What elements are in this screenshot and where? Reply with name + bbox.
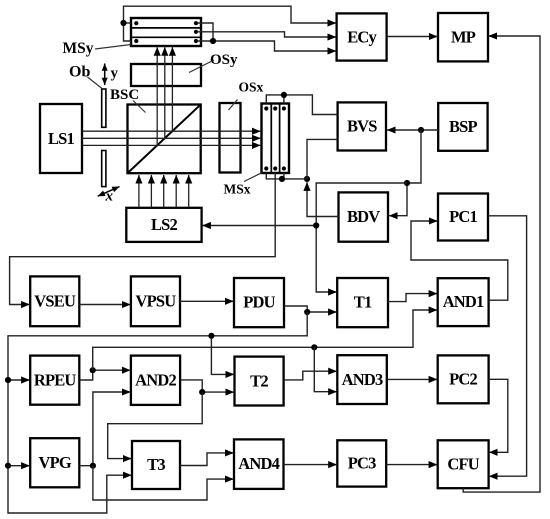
- svg-text:OSy: OSy: [210, 52, 238, 68]
- wire VPG to AND2 lower input: [79, 392, 130, 466]
- junction T2 upper feed: [208, 333, 214, 339]
- svg-text:PC1: PC1: [449, 207, 477, 226]
- junction LS2 branch: [313, 222, 319, 228]
- beam splitter cube BSC: [128, 105, 201, 174]
- block VPSU: [131, 276, 180, 326]
- svg-text:MSx: MSx: [224, 182, 251, 197]
- junction on BSP-BVS wire: [418, 127, 424, 133]
- block ECy: [337, 13, 387, 60]
- wire BSP branch down to BDV right input: [389, 130, 421, 216]
- wire MSy strip1 right loop: [197, 23, 213, 41]
- x axis double arrow: [98, 187, 120, 205]
- svg-text:VSEU: VSEU: [34, 292, 76, 311]
- svg-text:OSx: OSx: [239, 80, 264, 95]
- mirror system MSy: [131, 18, 201, 46]
- svg-text:AND4: AND4: [238, 454, 279, 473]
- horizontal laser beam LS1 to MSx (3 rays): [82, 131, 261, 145]
- wire RPEU branch to AND1 lower input: [93, 310, 438, 370]
- pump beams LS2 to BSC (5 arrows): [139, 175, 189, 208]
- wire CFU output to MP right input: [463, 36, 540, 492]
- block PC3: [337, 440, 386, 486]
- svg-text:RPEU: RPEU: [34, 371, 77, 390]
- label Ob with pointer: [69, 64, 102, 89]
- junction RPEU output branch: [90, 367, 96, 373]
- wire MSy left node over top to ECy input 1: [124, 6, 337, 41]
- svg-text:PC3: PC3: [348, 454, 376, 473]
- svg-text:BDV: BDV: [347, 207, 380, 226]
- svg-text:VPG: VPG: [38, 453, 71, 472]
- wire PC1 to CFU right input 2: [488, 216, 527, 476]
- junction MSy left node: [120, 20, 126, 26]
- block RPEU: [30, 356, 79, 405]
- wire T1 to AND1 upper input: [388, 294, 437, 302]
- junction MSx bottom col3: [279, 176, 285, 182]
- block BDV: [339, 192, 389, 241]
- svg-text:y: y: [111, 66, 119, 82]
- wire branch to AND3 lower input: [314, 347, 337, 391]
- junction AND3 lower feed: [311, 344, 317, 350]
- aperture Ob upper slit: [102, 89, 106, 127]
- label OSx with pointer: [229, 80, 264, 111]
- block MP: [438, 13, 488, 61]
- svg-text:AND1: AND1: [443, 292, 484, 311]
- svg-text:PC2: PC2: [449, 370, 477, 389]
- block PC2: [438, 355, 489, 403]
- wire T3 to AND4 upper input: [180, 453, 234, 466]
- label MSx with pointer: [224, 173, 262, 197]
- wire PC3 to CFU: [386, 464, 437, 466]
- laser source LS2: [126, 208, 201, 242]
- svg-text:AND2: AND2: [135, 371, 176, 390]
- wire BSP to BVS: [387, 129, 438, 131]
- label MSy with pointer: [63, 40, 132, 57]
- wire RPEU to AND2 upper input: [79, 370, 130, 380]
- junction BSP branch node: [404, 180, 410, 186]
- svg-text:PDU: PDU: [243, 293, 275, 312]
- wire ECy to MP: [387, 36, 438, 38]
- wire PC2 to CFU right input 1: [489, 379, 508, 452]
- wire AND4 to PC3: [284, 464, 337, 466]
- junction VPG output branch: [90, 463, 96, 469]
- block PC1: [438, 194, 488, 241]
- junction MSx drive node: [304, 176, 310, 182]
- block BVS: [338, 102, 386, 150]
- wire AND2 branch to T3 upper input: [108, 392, 203, 459]
- block BSP: [438, 103, 487, 151]
- svg-text:LS2: LS2: [151, 215, 178, 234]
- junction RPEU feed: [5, 377, 11, 383]
- y axis double arrow: [105, 64, 119, 86]
- junction VPG feed: [5, 463, 11, 469]
- wire VPSU to PDU: [180, 300, 234, 302]
- svg-text:BVS: BVS: [347, 117, 377, 136]
- label BSC with pointer: [110, 87, 146, 113]
- svg-text:AND3: AND3: [342, 370, 383, 389]
- block AND2: [131, 356, 180, 405]
- wire VPG branch to AND4 lower input: [93, 466, 234, 500]
- svg-text:BSP: BSP: [449, 117, 478, 136]
- svg-text:T2: T2: [250, 372, 268, 391]
- wire MSy strip3 right to ECy input 3: [197, 41, 336, 51]
- block T2: [235, 357, 284, 406]
- block T3: [132, 441, 180, 489]
- wire AND3 to PC2: [387, 378, 437, 380]
- block AND3: [337, 355, 387, 404]
- block AND1: [438, 278, 489, 326]
- junction MSy right loop on strip3 wire: [210, 38, 216, 44]
- svg-text:Ob: Ob: [69, 64, 90, 81]
- svg-text:CFU: CFU: [447, 455, 479, 474]
- aperture Ob lower slit: [102, 151, 106, 187]
- wire AND1 to PC1 input: [411, 221, 508, 300]
- vertical laser beam BSC to MSy (3 rays): [157, 47, 172, 145]
- wire VSEU to VPSU: [79, 304, 130, 306]
- block CFU: [438, 440, 489, 488]
- wire PDU distribution to RPEU VPG T3: [8, 312, 307, 513]
- block T1: [337, 278, 388, 327]
- block AND4: [234, 439, 284, 489]
- svg-text:MSy: MSy: [63, 40, 94, 57]
- block VPG: [30, 438, 79, 487]
- svg-text:LS1: LS1: [48, 129, 75, 148]
- svg-text:VPSU: VPSU: [135, 292, 176, 311]
- junction MSx top col3: [281, 92, 287, 98]
- wire node to BVS lower left input: [307, 139, 338, 179]
- block PDU: [234, 278, 284, 327]
- label OSy with pointer: [189, 52, 238, 73]
- junction AND2 output branch: [199, 389, 205, 395]
- wire MSx bottom bar: [266, 173, 307, 179]
- wire AND2 to T2 lower input: [180, 380, 234, 392]
- svg-text:x: x: [105, 189, 114, 205]
- junction PDU output branch: [304, 309, 310, 315]
- scanner OSy: [131, 64, 201, 86]
- wire BDV output up into MSx drive node: [307, 182, 339, 216]
- wire MSy strip2 right to ECy input 2: [197, 32, 336, 37]
- scanner OSx: [220, 103, 241, 173]
- mirror system MSx: [262, 104, 290, 174]
- svg-text:ECy: ECy: [347, 28, 377, 47]
- laser source LS1: [40, 104, 82, 173]
- block VSEU: [30, 276, 79, 326]
- wire MSx top bar to BVS upper left input: [266, 95, 337, 115]
- wire PDU to T1 lower input: [284, 306, 337, 312]
- wire BSP branch to LS2 and T1 upper input: [202, 183, 407, 292]
- wire T2 to AND3 upper input: [284, 371, 337, 380]
- svg-text:T3: T3: [147, 455, 165, 474]
- svg-text:BSC: BSC: [110, 87, 139, 103]
- svg-text:T1: T1: [354, 293, 372, 312]
- wire MSx col2 down to VSEU input: [10, 173, 276, 305]
- svg-text:MP: MP: [451, 28, 476, 47]
